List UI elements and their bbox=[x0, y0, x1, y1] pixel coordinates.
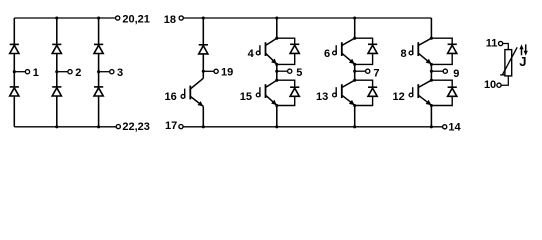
junction dot emitter node bbox=[353, 63, 356, 66]
junction dot collector node bbox=[430, 37, 433, 40]
svg-text:J: J bbox=[519, 54, 526, 69]
transistor 6 (IGBT upper) bbox=[333, 38, 355, 64]
node 1: junction dot bbox=[13, 70, 16, 73]
svg-text:3: 3 bbox=[117, 67, 123, 79]
junction dot: leg at bottom rail x=277 bbox=[275, 125, 278, 128]
terminal 22,23 circle bbox=[116, 125, 120, 129]
wire: rectifier leg 1 vertical bbox=[13, 18, 15, 127]
junction dot lower emitter node bbox=[353, 104, 356, 107]
transistor 16 (chopper IGBT) bbox=[181, 78, 203, 106]
terminal 11 circle bbox=[499, 41, 503, 45]
terminal 14 circle bbox=[443, 125, 447, 129]
wire: upper diode branch bbox=[355, 38, 373, 64]
junction dot lower collector node bbox=[353, 79, 356, 82]
wire: leg vertical from top rail bbox=[276, 18, 278, 38]
wire: leg vertical to bottom rail bbox=[430, 106, 432, 127]
wire: lower diode branch bbox=[277, 80, 295, 105]
svg-text:1: 1 bbox=[33, 67, 39, 79]
terminal 3 circle bbox=[110, 70, 114, 74]
svg-text:8: 8 bbox=[400, 48, 406, 60]
diode: free-wheel diode of IGBT 12 bbox=[448, 86, 457, 88]
junction dot lower collector node bbox=[430, 79, 433, 82]
svg-text:22,23: 22,23 bbox=[122, 121, 150, 133]
thermistor J body bbox=[505, 50, 512, 76]
wire: chopper emitter to bottom rail bbox=[202, 106, 204, 126]
wire: leg vertical to bottom rail bbox=[354, 106, 356, 127]
terminal 20,21 circle bbox=[116, 16, 120, 20]
node 19: junction dot bbox=[202, 70, 205, 73]
junction dot lower emitter node bbox=[430, 104, 433, 107]
svg-text:10: 10 bbox=[484, 79, 496, 91]
diode: free-wheel diode of IGBT 8 bbox=[448, 43, 457, 45]
svg-text:4: 4 bbox=[248, 48, 255, 60]
wire: stub to terminal 5 bbox=[277, 70, 288, 72]
wire: stub to terminal 1 bbox=[14, 71, 25, 73]
node 5: junction dot bbox=[275, 70, 278, 73]
temperature up arrow bbox=[521, 47, 523, 55]
junction dot: leg at top rail x=355 bbox=[353, 16, 356, 19]
wire: lower diode branch bbox=[355, 80, 373, 105]
wire: terminal 11 to thermistor top bbox=[503, 44, 509, 50]
svg-text:11: 11 bbox=[486, 37, 498, 49]
transistor 8 (IGBT upper) bbox=[409, 38, 431, 64]
wire: rectifier top rail (+) to terminal 20,21 bbox=[14, 17, 115, 19]
diode: rectifier lower diode leg 3 bbox=[94, 86, 103, 88]
junction dot lower collector node bbox=[275, 79, 278, 82]
thermistor diagonal stroke bbox=[502, 47, 517, 75]
junction dot: leg at top rail x=277 bbox=[275, 16, 278, 19]
wire: inverter top rail bbox=[183, 17, 431, 19]
junction dot: leg at bottom rail x=431 bbox=[430, 125, 433, 128]
wire: chopper vertical to node 19 bbox=[202, 54, 204, 79]
thermistor diagonal foot bbox=[500, 74, 505, 76]
wire: upper diode branch bbox=[431, 38, 452, 64]
terminal 17 circle bbox=[179, 125, 183, 129]
wire: leg vertical from top rail bbox=[354, 18, 356, 38]
transistor 4 (IGBT upper) bbox=[256, 38, 276, 64]
wire: stub to terminal 9 bbox=[431, 70, 443, 72]
diode: free-wheel diode of IGBT 6 bbox=[368, 43, 377, 45]
svg-text:17: 17 bbox=[165, 120, 177, 132]
wire: stub to terminal 19 bbox=[203, 70, 214, 72]
transistor 13 (IGBT lower) bbox=[333, 80, 355, 105]
terminal 2 circle bbox=[68, 70, 72, 74]
svg-text:2: 2 bbox=[75, 67, 81, 79]
junction dot on top rail bbox=[55, 16, 58, 19]
svg-text:19: 19 bbox=[221, 66, 233, 78]
diode: rectifier upper diode leg 1 bbox=[10, 43, 19, 45]
node 7: junction dot bbox=[353, 70, 356, 73]
svg-text:13: 13 bbox=[316, 91, 328, 103]
diode: chopper free-wheel diode bbox=[199, 44, 208, 46]
junction dot emitter node bbox=[430, 63, 433, 66]
svg-text:9: 9 bbox=[453, 68, 459, 80]
svg-text:18: 18 bbox=[164, 14, 176, 26]
svg-text:5: 5 bbox=[296, 67, 302, 79]
svg-text:7: 7 bbox=[373, 67, 379, 79]
wire: stub to terminal 2 bbox=[57, 71, 68, 73]
wire: upper diode branch bbox=[277, 38, 295, 64]
diode: rectifier lower diode leg 1 bbox=[10, 86, 19, 88]
wire: leg vertical mid bbox=[430, 64, 432, 80]
terminal 7 circle bbox=[366, 69, 370, 73]
wire: rectifier leg 3 vertical bbox=[98, 18, 100, 127]
svg-text:20,21: 20,21 bbox=[122, 14, 150, 26]
junction dot collector node bbox=[353, 37, 356, 40]
diode: free-wheel diode of IGBT 4 bbox=[290, 43, 299, 45]
terminal 1 circle bbox=[25, 70, 29, 74]
junction dot emitter node bbox=[275, 63, 278, 66]
transistor 15 (IGBT lower) bbox=[256, 80, 276, 105]
diode: rectifier lower diode leg 2 bbox=[52, 86, 61, 88]
wire: chopper vertical from top rail bbox=[202, 18, 204, 45]
junction dot on top rail bbox=[97, 16, 100, 19]
wire: leg vertical from top rail bbox=[430, 18, 432, 38]
wire: rectifier bottom rail (-) to terminal 22,23 bbox=[14, 126, 116, 128]
wire: inverter bottom rail bbox=[183, 126, 443, 128]
diode: rectifier upper diode leg 2 bbox=[52, 43, 61, 45]
junction dot: leg at bottom rail x=355 bbox=[353, 125, 356, 128]
terminal 9 circle bbox=[443, 69, 447, 73]
wire: lower diode branch bbox=[431, 80, 452, 105]
junction dot collector node bbox=[275, 37, 278, 40]
wire: stub to terminal 3 bbox=[99, 71, 110, 73]
diode: free-wheel diode of IGBT 13 bbox=[368, 86, 377, 88]
junction dot: chopper at top rail bbox=[202, 16, 205, 19]
transistor 12 (IGBT lower) bbox=[409, 80, 431, 105]
wire: leg vertical mid bbox=[276, 64, 278, 80]
wire: leg vertical mid bbox=[354, 64, 356, 80]
wire: leg vertical to bottom rail bbox=[276, 106, 278, 127]
junction dot on bottom rail bbox=[97, 125, 100, 128]
diode: free-wheel diode of IGBT 15 bbox=[290, 86, 299, 88]
svg-text:14: 14 bbox=[448, 121, 461, 133]
wire: stub to terminal 7 bbox=[355, 70, 366, 72]
terminal 18 circle bbox=[179, 16, 183, 20]
svg-text:15: 15 bbox=[240, 91, 252, 103]
terminal 5 circle bbox=[288, 69, 292, 73]
node 9: junction dot bbox=[430, 70, 433, 73]
node 3: junction dot bbox=[97, 70, 100, 73]
junction dot: chopper at bottom rail bbox=[202, 125, 205, 128]
junction dot on bottom rail bbox=[55, 125, 58, 128]
wire: rectifier leg 2 vertical bbox=[56, 18, 58, 127]
svg-text:16: 16 bbox=[165, 91, 177, 103]
terminal 19 circle bbox=[214, 69, 218, 73]
svg-text:6: 6 bbox=[324, 48, 330, 60]
wire: thermistor bottom to terminal 10 bbox=[501, 76, 508, 85]
diode: rectifier upper diode leg 3 bbox=[94, 43, 103, 45]
temperature down arrow bbox=[525, 44, 527, 52]
terminal 10 circle bbox=[497, 83, 501, 87]
junction dot lower emitter node bbox=[275, 104, 278, 107]
node 2: junction dot bbox=[55, 70, 58, 73]
svg-text:12: 12 bbox=[393, 91, 405, 103]
